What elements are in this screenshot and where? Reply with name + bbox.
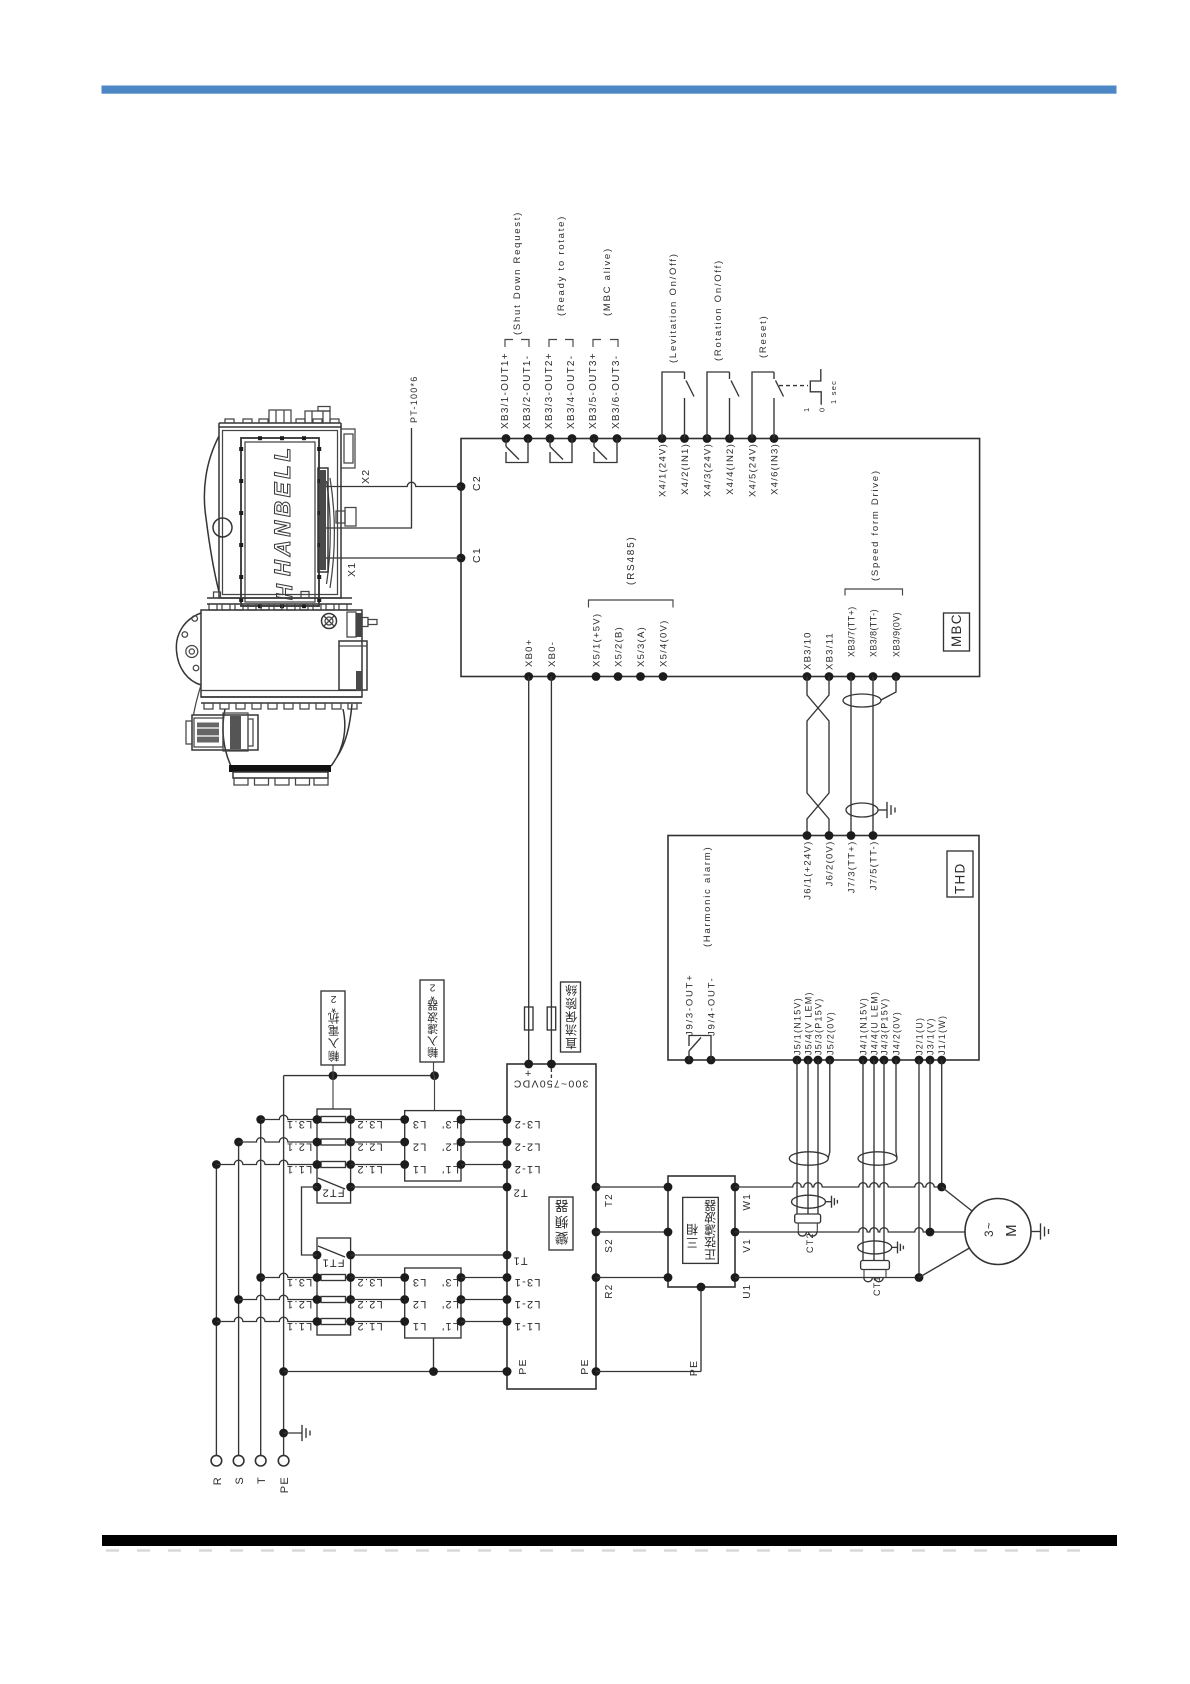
compressor lifting hole <box>213 518 232 537</box>
wire filter to inverter <box>461 1277 507 1279</box>
wire C1 from compressor X1 to MBC <box>326 557 461 559</box>
svg-text:R: R <box>212 1476 224 1485</box>
svg-text:3~: 3~ <box>984 1221 996 1237</box>
bracket marks over OUT2 labels <box>549 340 573 348</box>
svg-text:FT2: FT2 <box>321 1187 344 1199</box>
wire U1 to motor <box>735 1277 919 1279</box>
svg-text:W1: W1 <box>742 1193 753 1211</box>
svg-text:J4/2(0V): J4/2(0V) <box>892 1011 902 1055</box>
input terminal T <box>255 1455 266 1466</box>
svg-text:1 sec: 1 sec <box>829 380 838 404</box>
sine filter left terminal dots <box>664 1183 673 1192</box>
wire XB0+ DC link <box>528 677 530 1065</box>
MBC controller box outline U-MBC <box>461 439 980 677</box>
reactor winding element <box>321 1275 346 1281</box>
svg-text:(Levitation On/Off): (Levitation On/Off) <box>668 252 679 363</box>
PE earth stub <box>284 1432 302 1434</box>
terminal dots J9/3 J9/4 on THD bottom edge <box>685 1056 694 1065</box>
external switch IN2 above MBC <box>707 372 739 439</box>
svg-text:(MBC alive): (MBC alive) <box>602 247 613 316</box>
wire J2/1 to U1 node <box>918 1060 920 1278</box>
svg-text:L2.1: L2.1 <box>286 1298 312 1310</box>
svg-text:J5/4(V LEM): J5/4(V LEM) <box>804 991 814 1055</box>
wire inverter R2 to sine filter <box>596 1277 668 1279</box>
svg-text:R2: R2 <box>604 1284 615 1299</box>
svg-text:C2: C2 <box>471 475 483 491</box>
PE earth ground symbol <box>302 1425 310 1441</box>
svg-text:J6/1(+24V): J6/1(+24V) <box>803 841 814 900</box>
svg-text:PE: PE <box>579 1358 591 1375</box>
svg-text:險: 險 <box>564 996 577 1011</box>
svg-text:J5/2(0V): J5/2(0V) <box>825 1011 835 1055</box>
svg-text:C1: C1 <box>471 547 483 563</box>
motor feed junction dots <box>937 1183 946 1192</box>
svg-text:L3-1: L3-1 <box>513 1276 540 1288</box>
PE bus wire <box>284 1371 507 1373</box>
svg-text:L1.2: L1.2 <box>356 1163 382 1175</box>
input filter label box 輸入濾波器*2 <box>420 980 444 1062</box>
motor M circle <box>965 1199 1031 1265</box>
compressor lower-left flange <box>176 613 201 685</box>
inverter box outline 變頻器 <box>507 1064 596 1389</box>
svg-text:THD: THD <box>953 863 968 895</box>
CT2 shield ground stub <box>826 1201 832 1203</box>
svg-text:CT1: CT1 <box>872 1275 882 1296</box>
filter2 PE stub <box>433 1338 435 1372</box>
inverter DC input dots XB0+ XB0- <box>524 1060 533 1069</box>
svg-text:PT-100*6: PT-100*6 <box>409 375 419 423</box>
shield ellipse lower <box>846 803 878 817</box>
MBC designator label box <box>944 613 970 651</box>
svg-text:X5/3(A): X5/3(A) <box>636 626 647 667</box>
wire L1.1 upper <box>216 1160 317 1164</box>
junction dots on phase risers <box>212 1317 221 1326</box>
svg-text:J4/1(N15V): J4/1(N15V) <box>859 997 869 1055</box>
svg-text:S: S <box>234 1476 246 1485</box>
PE bus junction dots <box>429 1367 438 1376</box>
svg-text:1: 1 <box>802 407 811 412</box>
svg-text:L2.1: L2.1 <box>286 1141 312 1153</box>
svg-text:XB3/1-OUT1+: XB3/1-OUT1+ <box>500 352 511 429</box>
wire XB3/7 shielded pair a <box>850 677 852 836</box>
wire inverter S2 to sine filter <box>596 1231 668 1233</box>
svg-text:XB3/5-OUT3+: XB3/5-OUT3+ <box>588 352 599 429</box>
reactor winding element <box>321 1162 346 1168</box>
svg-text:器: 器 <box>703 1198 716 1212</box>
svg-text:X5/1(+5V): X5/1(+5V) <box>592 613 603 667</box>
wire reactor to filter L3.2 <box>351 1119 405 1121</box>
CT2 shield ground symbol <box>832 1196 838 1208</box>
svg-text:PE: PE <box>688 1360 700 1377</box>
reactor winding element <box>321 1319 346 1325</box>
terminal dots C2 and C1 on MBC left edge <box>457 482 466 491</box>
svg-text:PE: PE <box>279 1476 291 1493</box>
fuse-switch FT2 <box>318 1178 345 1189</box>
svg-text:變: 變 <box>554 1230 569 1245</box>
svg-text:流: 流 <box>564 1023 577 1037</box>
svg-text:L2': L2' <box>441 1298 459 1310</box>
PE bonding bus to label leaders <box>284 1075 435 1077</box>
svg-text:J1/1(W): J1/1(W) <box>937 1015 947 1055</box>
wire filter to inverter <box>461 1299 507 1301</box>
terminal dots X4/1..X4/6 on MBC top edge <box>658 434 667 443</box>
input reactor label box 輸入電抗*2 <box>321 991 345 1065</box>
nameplate edge studs <box>239 447 243 451</box>
svg-text:L2.2: L2.2 <box>356 1298 382 1310</box>
wire filter to inverter <box>461 1119 507 1121</box>
wire J4/3 to CT1 <box>883 1060 885 1261</box>
svg-text:抗: 抗 <box>327 1011 340 1025</box>
footer faint dash row <box>106 1549 1092 1552</box>
compressor top bolt tabs <box>225 419 234 423</box>
svg-text:J5/3(P15V): J5/3(P15V) <box>814 997 824 1055</box>
svg-text:L2: L2 <box>412 1298 427 1310</box>
svg-text:波: 波 <box>426 1010 438 1023</box>
reactor winding element <box>321 1139 346 1145</box>
compressor top fitting 2 <box>305 411 330 423</box>
shield ground symbol <box>887 802 895 818</box>
wire J1/1 to W1 node <box>941 1060 943 1187</box>
wire J4/1 to CT1 <box>862 1060 864 1261</box>
input reactor box 2 (lower) <box>317 1238 351 1335</box>
svg-text:(RS485): (RS485) <box>626 536 637 586</box>
compressor cable harness arcs <box>330 478 335 588</box>
svg-text:L3-2: L3-2 <box>513 1118 540 1130</box>
compressor right solenoid box <box>339 641 367 690</box>
wire XB0- DC link <box>550 677 552 1065</box>
terminal dots XB0+ XB0- on MBC bottom edge <box>524 672 533 681</box>
CT1 clamp loops around U1 <box>864 1278 883 1282</box>
bracket over XB3/7-9 group <box>845 589 903 596</box>
DC fuse label box 直流保險絲 <box>561 982 581 1052</box>
CT1 cable shield ellipse upper <box>858 1152 897 1165</box>
svg-text:J6/2(0V): J6/2(0V) <box>825 841 836 887</box>
wire W1 to motor <box>735 1183 942 1187</box>
wire XB3/9 shield drain <box>881 677 896 701</box>
svg-text:J9/4-OUT-: J9/4-OUT- <box>707 976 718 1036</box>
svg-text:L1.1: L1.1 <box>286 1163 312 1175</box>
svg-text:波: 波 <box>703 1210 716 1224</box>
wire XB3/10 twisted pair a <box>807 677 829 836</box>
svg-text:X4/1(24V): X4/1(24V) <box>658 443 669 497</box>
wire V1 to motor <box>735 1228 965 1232</box>
svg-text:XB3/11: XB3/11 <box>825 632 836 670</box>
svg-text:J3/1(V): J3/1(V) <box>926 1017 936 1055</box>
svg-text:L2-2: L2-2 <box>513 1141 540 1153</box>
svg-text:頻: 頻 <box>554 1214 569 1229</box>
wire FT2 link to FT1 <box>302 1187 318 1255</box>
svg-text:輸: 輸 <box>327 1049 340 1063</box>
compressor terminal strip X1/X2 <box>318 468 328 572</box>
svg-text:L2': L2' <box>441 1141 459 1153</box>
motor ground symbol <box>1041 1223 1049 1239</box>
terminal dots J5 group on THD bottom edge <box>793 1056 802 1065</box>
fuse F- (DC fuse) <box>547 1007 556 1030</box>
wire S phase riser <box>238 1142 240 1455</box>
compressor right step housing <box>341 429 355 468</box>
svg-text:X4/4(IN2): X4/4(IN2) <box>725 443 736 495</box>
terminal dots XB3/10 XB3/11 XB3/7 XB3/8 XB3/9 on MBC bottom edge <box>803 672 812 681</box>
CT2 cable shield ellipse lower <box>792 1195 826 1208</box>
compressor mounting bar <box>229 765 331 772</box>
leader filter label box <box>434 1062 435 1111</box>
relay contact OUT1 inside MBC <box>506 439 528 463</box>
svg-text:T: T <box>256 1476 268 1484</box>
wire XB3/8 shielded pair b <box>872 677 874 836</box>
svg-text:X1: X1 <box>346 562 358 577</box>
compressor mid flange <box>207 598 352 604</box>
fuse-switch FT1 <box>318 1246 345 1257</box>
shield ellipse upper <box>843 694 881 707</box>
wire J4/4 to CT1 <box>873 1060 875 1261</box>
wire J5/3 to CT2 <box>817 1060 819 1214</box>
svg-text:(Rotation On/Off): (Rotation On/Off) <box>713 259 724 361</box>
wire PT-100 sensor lead <box>325 428 412 528</box>
wire J5/1 to CT2 <box>796 1060 798 1214</box>
svg-text:S2: S2 <box>604 1238 615 1253</box>
wire XB3/11 twisted pair b <box>807 677 829 836</box>
wire reactor to filter L1.2 <box>351 1321 405 1323</box>
compressor flange-connector link curve <box>194 685 202 715</box>
svg-text:MBC: MBC <box>949 613 964 647</box>
svg-text:L1-1: L1-1 <box>513 1320 540 1332</box>
svg-text:(Speed form Drive): (Speed form Drive) <box>870 469 881 581</box>
bracket over X5 group <box>589 600 674 608</box>
wire C2 from compressor X2 to MBC <box>326 482 461 486</box>
svg-text:(Reset): (Reset) <box>758 315 769 358</box>
svg-text:絲: 絲 <box>564 983 577 998</box>
reactor box2 terminal dots <box>313 1273 322 1282</box>
svg-text:L1: L1 <box>412 1320 427 1332</box>
svg-text:M: M <box>1003 1223 1020 1237</box>
svg-text:L1-2: L1-2 <box>513 1163 540 1175</box>
svg-text:L2: L2 <box>412 1141 427 1153</box>
blue header bar <box>102 86 1117 94</box>
bracket marks over OUT1 labels <box>505 340 529 348</box>
filter box2 terminal dots <box>400 1273 409 1282</box>
polarity dash - <box>550 1068 552 1078</box>
svg-text:入: 入 <box>327 1036 340 1049</box>
svg-text:L1.1: L1.1 <box>286 1320 312 1332</box>
junction dots on bonding bus <box>329 1071 338 1080</box>
wire reactor to filter L1.2 <box>351 1164 405 1166</box>
wire filter to inverter <box>461 1141 507 1143</box>
wire J3/1 to V1 node <box>929 1060 931 1232</box>
svg-text:器: 器 <box>426 999 438 1012</box>
svg-text:J5/1(N15V): J5/1(N15V) <box>793 997 803 1055</box>
relay contact harmonic alarm output <box>689 1036 711 1061</box>
compressor top fitting 1 <box>269 410 291 423</box>
terminal dots J4 group on THD bottom edge <box>859 1056 868 1065</box>
svg-text:L1: L1 <box>412 1163 427 1175</box>
svg-text:L3: L3 <box>412 1118 427 1130</box>
wire T phase riser <box>260 1120 262 1456</box>
svg-text:0: 0 <box>818 407 827 412</box>
svg-text:正: 正 <box>703 1247 716 1261</box>
svg-text:L1': L1' <box>441 1320 459 1332</box>
inverter left edge terminal dots <box>503 1115 512 1124</box>
svg-text:J7/5(TT-): J7/5(TT-) <box>869 841 880 891</box>
svg-text:L3: L3 <box>412 1276 427 1288</box>
compressor suction connector assembly <box>192 715 258 750</box>
svg-text:XB3/8(TT-): XB3/8(TT-) <box>869 609 879 657</box>
leader reactor label box <box>332 1065 334 1109</box>
sine filter label box 三相正弦濾波器 <box>683 1197 719 1263</box>
wire L3.1 lower <box>261 1273 317 1277</box>
svg-text:X4/5(24V): X4/5(24V) <box>748 443 759 497</box>
wire reactor to filter L2.2 <box>351 1299 405 1301</box>
wire L2.1 lower <box>239 1295 317 1299</box>
svg-text:XB3/9(0V): XB3/9(0V) <box>892 612 902 657</box>
relay contact OUT3 inside MBC <box>594 439 617 463</box>
sine filter PE terminal dot <box>697 1283 706 1292</box>
svg-text:L1.2: L1.2 <box>356 1320 382 1332</box>
input terminal S <box>233 1455 244 1466</box>
svg-text:(Harmonic alarm): (Harmonic alarm) <box>702 846 713 947</box>
svg-text:相: 相 <box>685 1222 698 1236</box>
svg-text:XB3/4-OUT2-: XB3/4-OUT2- <box>566 355 577 429</box>
wire FT1 to inverter T1 <box>351 1254 507 1256</box>
terminal dots J2/1 J3/1 J1/1 on THD bottom edge <box>915 1056 924 1065</box>
wire inverter T2 to sine filter <box>596 1186 668 1188</box>
THD designator label box <box>947 851 973 897</box>
svg-text:HANBELL: HANBELL <box>270 444 295 576</box>
svg-text:T2: T2 <box>512 1187 527 1199</box>
svg-text:XB0+: XB0+ <box>524 638 535 667</box>
svg-text:300~750VDC: 300~750VDC <box>513 1078 589 1090</box>
svg-text:XB3/6-OUT3-: XB3/6-OUT3- <box>611 355 622 429</box>
wire J4/2 shield drain <box>896 1060 897 1158</box>
svg-text:保: 保 <box>564 1009 577 1023</box>
relay contact OUT2 inside MBC <box>550 439 572 463</box>
external switch IN1 above MBC <box>662 372 694 439</box>
svg-text:J9/3-OUT+: J9/3-OUT+ <box>685 974 696 1036</box>
svg-text:PE: PE <box>517 1358 529 1375</box>
reactor winding element <box>321 1117 346 1123</box>
wire U1 diagonal to motor <box>919 1248 970 1278</box>
wire reactor to filter L2.2 <box>351 1141 405 1143</box>
svg-text:L3.2: L3.2 <box>356 1118 382 1130</box>
input filter box 2 (lower) <box>405 1268 461 1338</box>
svg-text:T1: T1 <box>512 1255 527 1267</box>
svg-text:XB3/3-OUT2+: XB3/3-OUT2+ <box>544 352 555 429</box>
svg-text:(Shut Down Request): (Shut Down Request) <box>512 211 523 335</box>
svg-text:T2: T2 <box>604 1193 615 1207</box>
compressor side bolt <box>336 511 345 523</box>
motor ground stub <box>1031 1231 1041 1233</box>
input terminal R <box>211 1455 222 1466</box>
shield ground stub <box>878 809 887 811</box>
nameplate inner frame <box>245 442 315 602</box>
reactor box1 terminal dots <box>313 1115 322 1124</box>
THD harmonic drive box outline U-THD <box>668 836 979 1061</box>
input terminal PE <box>278 1455 289 1466</box>
svg-text:L2.2: L2.2 <box>356 1141 382 1153</box>
compressor body lower section (screw housing) <box>201 610 362 697</box>
svg-text:U1: U1 <box>742 1284 753 1299</box>
wire W1 diagonal to motor <box>942 1187 972 1211</box>
svg-text:X2: X2 <box>360 469 372 484</box>
svg-text:J2/1(U): J2/1(U) <box>915 1017 925 1055</box>
svg-text:J4/4(U LEM): J4/4(U LEM) <box>870 991 880 1055</box>
svg-text:FT1: FT1 <box>321 1257 344 1269</box>
svg-text:器: 器 <box>554 1198 569 1213</box>
svg-text:X4/6(IN3): X4/6(IN3) <box>770 443 781 495</box>
svg-text:J7/3(TT+): J7/3(TT+) <box>847 841 858 894</box>
svg-text:V1: V1 <box>742 1238 753 1253</box>
inverter designator label box 變頻器 <box>549 1197 573 1250</box>
CT2 cable shield ellipse upper <box>789 1152 828 1165</box>
junction dots on PE riser <box>279 1429 288 1438</box>
three-phase sine filter box outline <box>668 1176 735 1287</box>
wire R phase riser <box>215 1165 217 1456</box>
inverter right edge terminal dots <box>592 1183 601 1192</box>
wire L1.1 lower <box>216 1317 317 1321</box>
terminal dots X5/1..X5/4 on MBC bottom edge <box>592 672 601 681</box>
reactor winding element <box>321 1297 346 1303</box>
input filter box 1 (upper) <box>405 1111 461 1181</box>
compressor lower bolt with cross <box>322 614 337 629</box>
black footer bar <box>102 1535 1117 1546</box>
current transformer CT1 body <box>861 1261 890 1270</box>
wire L2.1 upper <box>239 1138 317 1142</box>
compressor left bulge flange <box>204 436 219 592</box>
CT2 clamp loops around V1 <box>798 1232 817 1236</box>
CT1 shield ground stub <box>892 1246 898 1248</box>
svg-text:J4/3(P15V): J4/3(P15V) <box>880 997 890 1055</box>
svg-text:X5/2(B): X5/2(B) <box>614 626 625 667</box>
svg-text:L3.1: L3.1 <box>286 1276 312 1288</box>
svg-text:XB3/7(TT+): XB3/7(TT+) <box>847 606 857 657</box>
svg-text:L3.1: L3.1 <box>286 1118 312 1130</box>
terminal dots XB3/1..XB3/6 on MBC top edge <box>502 434 511 443</box>
wire filter to inverter <box>461 1164 507 1166</box>
bracket marks over OUT3 labels <box>593 340 618 348</box>
filter box1 terminal dots <box>400 1115 409 1124</box>
svg-text:直: 直 <box>564 1036 577 1050</box>
input reactor box 1 (upper) <box>317 1109 351 1203</box>
svg-text:X4/3(24V): X4/3(24V) <box>703 443 714 497</box>
svg-text:XB0-: XB0- <box>547 641 558 667</box>
svg-text:三: 三 <box>685 1236 698 1250</box>
compressor right valve assembly <box>356 613 362 637</box>
compressor body upper section (motor housing) <box>219 427 341 598</box>
wire reactor to filter L3.2 <box>351 1277 405 1279</box>
svg-text:XB3/10: XB3/10 <box>803 631 814 670</box>
PE wire inverter to sine filter <box>596 1287 701 1372</box>
compressor bottom flange <box>201 697 362 703</box>
svg-text:L1': L1' <box>441 1163 459 1175</box>
wire L3.1 upper <box>261 1115 317 1119</box>
CT1 shield ground symbol <box>898 1242 904 1254</box>
current transformer CT2 body <box>795 1214 821 1223</box>
svg-text:XB3/2-OUT1-: XB3/2-OUT1- <box>522 355 533 429</box>
wire FT2 to inverter T2 <box>351 1186 507 1188</box>
compressor foot with teeth <box>233 772 328 778</box>
terminal dots J6/1 J6/2 J7/3 J7/5 on THD top edge <box>803 831 812 840</box>
wire filter to inverter <box>461 1321 507 1323</box>
svg-text:L3.2: L3.2 <box>356 1276 382 1288</box>
compressor bottom cone <box>223 704 352 766</box>
svg-text:入: 入 <box>426 1034 438 1046</box>
nameplate outer frame <box>241 438 319 606</box>
svg-text:CT2: CT2 <box>805 1232 815 1253</box>
svg-text:(Ready to rotate): (Ready to rotate) <box>556 215 567 316</box>
reset pushbutton timing glyph <box>779 385 808 387</box>
svg-text:X4/2(IN1): X4/2(IN1) <box>680 443 691 495</box>
svg-text:輸: 輸 <box>426 1046 438 1060</box>
svg-text:電: 電 <box>327 1024 340 1037</box>
